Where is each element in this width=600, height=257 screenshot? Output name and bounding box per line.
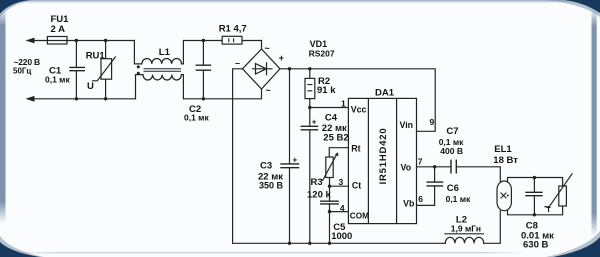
svg-text:Vcc: Vcc — [351, 105, 367, 115]
svg-text:VD1: VD1 — [310, 39, 328, 49]
svg-text:Ct: Ct — [352, 181, 361, 191]
svg-text:C3: C3 — [260, 160, 272, 171]
svg-text:Vin: Vin — [400, 120, 414, 130]
svg-text:350 В: 350 В — [259, 181, 284, 191]
svg-text:–: – — [235, 58, 240, 68]
svg-text:91 k: 91 k — [317, 85, 336, 96]
svg-text:R3: R3 — [311, 177, 323, 188]
svg-text:1,9 мГн: 1,9 мГн — [451, 223, 481, 233]
svg-text:+: + — [293, 156, 298, 165]
svg-text:U: U — [87, 81, 94, 92]
svg-text:4: 4 — [340, 203, 345, 213]
svg-text:0,1 мк: 0,1 мк — [184, 113, 209, 123]
svg-text:+: + — [279, 53, 284, 63]
svg-text:120 k: 120 k — [307, 189, 331, 200]
svg-text:~220 В: ~220 В — [14, 57, 41, 67]
svg-text:Vb: Vb — [403, 199, 415, 209]
svg-text:RU1: RU1 — [86, 50, 106, 61]
svg-text:IR51HD420: IR51HD420 — [378, 128, 389, 185]
svg-text:~: ~ — [265, 44, 270, 54]
svg-text:~: ~ — [266, 86, 271, 96]
svg-text:C7: C7 — [446, 126, 458, 137]
svg-text:400 В: 400 В — [440, 146, 463, 156]
svg-text:3: 3 — [339, 177, 344, 187]
svg-text:1: 1 — [341, 98, 346, 108]
svg-text:R1 4,7: R1 4,7 — [219, 24, 247, 35]
svg-text:1000: 1000 — [331, 231, 352, 242]
svg-text:EL1: EL1 — [494, 144, 512, 155]
svg-text:Vo: Vo — [401, 163, 412, 173]
svg-text:9: 9 — [430, 117, 435, 127]
svg-text:630 В: 630 В — [523, 240, 548, 251]
svg-text:7: 7 — [418, 157, 423, 167]
svg-text:T: T — [546, 205, 551, 214]
svg-text:L1: L1 — [159, 47, 171, 58]
svg-text:6: 6 — [418, 194, 423, 204]
svg-text:C4: C4 — [325, 112, 338, 123]
svg-text:25 В2: 25 В2 — [323, 132, 348, 143]
svg-text:2 A: 2 A — [51, 24, 66, 35]
svg-text:+: + — [312, 118, 317, 127]
svg-text:COM: COM — [350, 211, 369, 220]
svg-text:0,1 мк: 0,1 мк — [45, 75, 70, 85]
svg-text:18 Вт: 18 Вт — [493, 155, 518, 166]
svg-text:50Гц: 50Гц — [13, 67, 31, 76]
svg-text:C6: C6 — [447, 183, 459, 194]
svg-text:0,1 мк: 0,1 мк — [446, 194, 471, 204]
svg-text:DA1: DA1 — [375, 88, 395, 99]
svg-text:RS207: RS207 — [309, 48, 335, 58]
svg-text:Rt: Rt — [351, 143, 360, 153]
